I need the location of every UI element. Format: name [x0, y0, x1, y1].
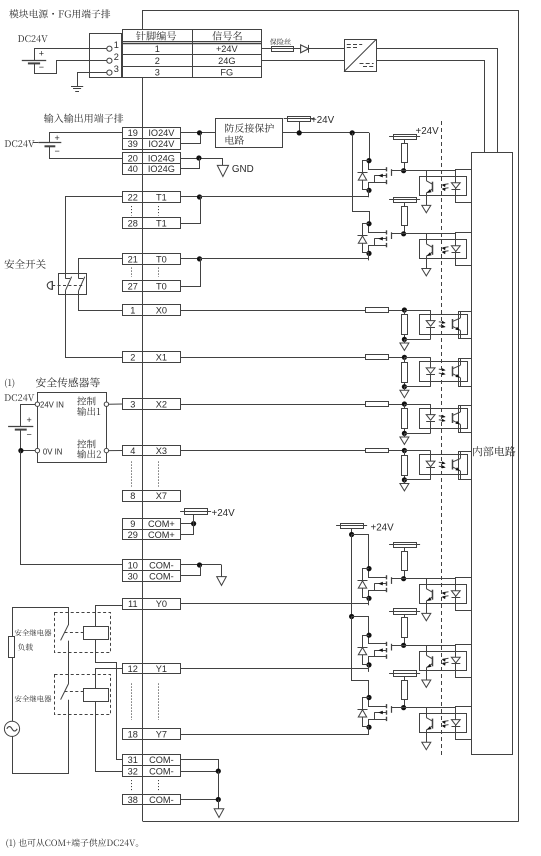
wire pin31 right to COM- bottom net — [180, 760, 218, 772]
wire resistor to gate node Y1 — [404, 637, 406, 645]
relay2 dashed box — [55, 675, 111, 715]
drain node Y7 — [366, 695, 371, 700]
wire gate node to optocoupler T1 — [404, 170, 456, 172]
terminal block pins 22 — [123, 192, 181, 203]
common triangle under X1 — [400, 387, 409, 398]
node B X1 — [402, 384, 407, 389]
optocoupler PCT1 LED — [451, 171, 460, 203]
common triangle under PCT1 — [422, 205, 431, 212]
svg-text:GND: GND — [232, 164, 254, 175]
optocoupler PCX3 box — [420, 455, 468, 475]
node A X1 — [402, 355, 407, 360]
body diode T1 — [358, 173, 368, 181]
svg-text:COM-: COM- — [149, 767, 174, 777]
wire T0 line to MOSFET source — [200, 258, 370, 260]
wire pin22 T1 to switch contact A — [66, 197, 123, 279]
terminal block pins 10/30 — [123, 560, 181, 582]
rail vertical to Y1 node — [351, 535, 353, 617]
optocoupler PCY1 light arrows — [442, 658, 449, 665]
wire resistor to gate node Y0 — [404, 571, 406, 579]
junction node COM- — [197, 562, 202, 567]
module left border line / pin-box divider net — [142, 10, 144, 821]
resistor RT1 gate pullup — [402, 144, 408, 163]
resistor RinX1 — [366, 355, 389, 360]
input cell X3 wire from pin — [180, 450, 366, 452]
svg-text:IO24G: IO24G — [148, 164, 175, 174]
optocoupler PCY1 phototransistor — [426, 645, 432, 680]
pin table header — [122, 30, 261, 78]
svg-text:COM+: COM+ — [148, 519, 175, 529]
bottom note — [6, 839, 138, 848]
svg-text:2: 2 — [114, 52, 119, 62]
wire T1 line to MOSFET source — [200, 196, 370, 198]
svg-text:−: − — [39, 62, 44, 72]
source node T1 — [366, 188, 371, 193]
junction node T0 — [197, 256, 202, 261]
wire pin40 up to IO24G node — [180, 158, 199, 169]
wire resistor to node A X1 — [389, 357, 405, 359]
optocoupler PCY7 output sub-box — [456, 707, 472, 740]
resistor RbX2 bias — [402, 404, 408, 433]
svg-text:3: 3 — [114, 64, 119, 74]
fuse F1 with label — [270, 38, 294, 51]
svg-text:27: 27 — [128, 282, 138, 292]
svg-text:0V IN: 0V IN — [43, 448, 63, 457]
body diode Y0 — [358, 581, 368, 589]
wire contact A to pin 2 X1 — [66, 291, 123, 358]
common triangle under PCY1 — [422, 680, 431, 687]
wire resistor to gate node Y7 — [404, 699, 406, 707]
wire pin19 to junction — [180, 132, 215, 134]
ellipsis between pins 32-38 — [131, 780, 133, 792]
optocoupler PCX3 light arrows — [439, 461, 446, 468]
svg-text:1: 1 — [155, 44, 160, 54]
optocoupler PCT0 phototransistor — [426, 234, 432, 269]
rail vertical to T0 — [353, 133, 370, 224]
wire pin21 T0 to switch contact B — [79, 259, 123, 279]
wire gate node to optocoupler T0 — [404, 233, 456, 235]
bottom COM- common triangle — [214, 800, 224, 818]
optocoupler PCY0 light arrows — [442, 592, 449, 599]
svg-text:11: 11 — [128, 599, 138, 609]
load resistor RL — [9, 637, 15, 658]
svg-text:COM-: COM- — [149, 560, 174, 570]
wire resistor to gate node T0 — [404, 226, 406, 234]
node A X3 — [402, 448, 407, 453]
svg-text:2: 2 — [130, 353, 135, 363]
drain node Y1 — [366, 633, 371, 638]
title label module-power/FG terminal block — [9, 9, 110, 18]
terminal block pins 9/29 — [123, 519, 181, 540]
wire rail to T cells — [352, 132, 369, 134]
resistor RinX2 — [366, 402, 389, 407]
optocoupler PCY7 LED — [451, 708, 460, 740]
wire resistor to node A X2 — [389, 404, 405, 406]
body diode Y1 — [358, 648, 368, 655]
resistor RbX1 bias — [402, 357, 408, 386]
wire DC/DC lower output to internal circuit — [376, 61, 484, 153]
svg-text:COM+: COM+ — [148, 530, 175, 540]
gate node Y7 — [401, 705, 406, 710]
junction node T1 — [197, 194, 202, 199]
output cell Y1: +24V fuse tap — [389, 609, 420, 618]
svg-text:31: 31 — [128, 755, 138, 765]
terminal block pins 11 — [123, 599, 181, 610]
pin table row 1 +24V — [155, 44, 239, 54]
body diode Y7 — [358, 710, 368, 718]
wire contact B to pin 1 X0 — [79, 291, 123, 311]
optocoupler PCY0 output sub-box — [456, 578, 472, 611]
svg-text:9: 9 — [130, 519, 135, 529]
resistor RbX0 bias — [402, 310, 408, 339]
title label I/O terminal block — [44, 114, 123, 123]
MOSFET QT0 — [369, 224, 404, 254]
wire B2- to pin 20 — [50, 146, 123, 158]
terminal block pins 8 — [123, 491, 181, 502]
relay1 dashed box — [55, 613, 111, 653]
svg-text:30: 30 — [128, 571, 138, 581]
fuse tap FP2 +24V COM+ — [180, 508, 235, 523]
wire +24V row to fuse — [262, 48, 272, 50]
ellipsis between pins 4-8 — [131, 462, 133, 487]
svg-text:+: + — [39, 49, 44, 59]
terminal block pins 27 — [123, 281, 181, 292]
wire Y7 line to MOSFET source — [180, 734, 369, 736]
svg-text:20: 20 — [128, 153, 138, 163]
svg-text:38: 38 — [128, 795, 138, 805]
optocoupler PCX0 phototransistor — [453, 311, 461, 339]
wire Y0 line to MOSFET source — [180, 603, 369, 605]
svg-text:FG: FG — [220, 67, 233, 77]
wire 0V node down to COM- pin 10 — [21, 451, 123, 565]
wire sensor output2 to pin 4 X3 — [109, 450, 123, 452]
svg-text:21: 21 — [128, 254, 138, 264]
label safety sensor — [36, 377, 100, 387]
node B X0 — [402, 337, 407, 342]
resistor RT0 gate pullup — [402, 207, 408, 226]
svg-text:29: 29 — [128, 530, 138, 540]
output cell Y7: +24V fuse tap — [389, 671, 420, 681]
optocoupler PCX3 input sub-box — [459, 452, 472, 480]
optocoupler PCX0 LED loop — [404, 310, 435, 340]
source node Y7 — [366, 725, 371, 730]
optocoupler PCY7 phototransistor — [426, 708, 432, 743]
drain node T0 — [366, 221, 371, 226]
reverse-connection protection circuit box — [216, 119, 283, 148]
pin table row 2 24G — [155, 56, 236, 66]
module outer border — [143, 10, 519, 822]
svg-text:+: + — [27, 415, 32, 425]
optocoupler PCX2 box — [420, 409, 468, 429]
svg-text:18: 18 — [128, 729, 138, 739]
optocoupler PCX2 input sub-box — [459, 406, 472, 433]
wire terminal 3 to earth ground — [78, 73, 107, 87]
resistor RY1 gate pullup — [402, 618, 408, 638]
optocoupler PCT1 output sub-box — [456, 170, 472, 203]
wire pin27 up to T0 node — [180, 259, 200, 287]
wire B1- to terminal 2 — [35, 61, 107, 74]
AC source G1 — [4, 721, 19, 736]
svg-text:24G: 24G — [218, 56, 235, 66]
junction node rail at fuse — [297, 130, 302, 135]
COM- common triangle — [217, 565, 227, 585]
svg-text:8: 8 — [130, 491, 135, 501]
wire B2+ to pin 19 — [50, 133, 123, 144]
terminal block pins 20/40 — [123, 153, 181, 175]
body diode Y0 loop — [363, 569, 370, 598]
GND arrow symbol — [217, 158, 253, 177]
wire pin21 right to T0 node — [180, 258, 199, 260]
svg-text:X1: X1 — [156, 353, 167, 363]
svg-text:24V IN: 24V IN — [40, 400, 64, 409]
svg-text:3: 3 — [155, 67, 160, 77]
resistor RinX0 — [366, 308, 389, 313]
optocoupler PCY1 box — [420, 652, 467, 671]
wire gate node to optocoupler Y0 — [404, 578, 456, 580]
switch contact A — [65, 277, 71, 291]
common triangle under PCY0 — [422, 613, 431, 620]
svg-text:COM-: COM- — [149, 795, 174, 805]
wire relay1 coil return to pin31 — [96, 640, 123, 760]
wire pin22 right to T1 node — [180, 196, 199, 198]
gate node T1 — [401, 168, 406, 173]
node A X2 — [402, 401, 407, 406]
svg-text:Y1: Y1 — [156, 664, 167, 674]
wire pin28 up to T1 node — [180, 197, 200, 224]
relay1 contact — [61, 624, 69, 683]
sensor box — [38, 393, 107, 463]
svg-text:+24V: +24V — [371, 523, 395, 534]
body diode T1 loop — [363, 161, 370, 190]
optocoupler PCY1 output sub-box — [456, 645, 472, 678]
mechanical link dashed — [52, 285, 82, 287]
optocoupler PCY7 box — [420, 714, 467, 733]
terminal block pins 3 — [123, 399, 181, 410]
svg-text:Y0: Y0 — [156, 599, 167, 609]
svg-text:12: 12 — [128, 664, 138, 674]
wire rail elbow down to T1 drain — [369, 133, 371, 161]
junction node COM+ — [191, 521, 196, 526]
power terminal strip with circles 1-3 — [90, 34, 122, 78]
optocoupler PCX1 phototransistor — [453, 359, 461, 387]
optocoupler PCT1 light arrows — [442, 184, 449, 191]
ellipsis between pins 21-27 — [131, 268, 133, 278]
optocoupler PCX0 box — [420, 315, 468, 335]
source node Y0 — [366, 596, 371, 601]
wire down to 38 node — [218, 771, 220, 799]
wire sensor output1 to pin 3 X2 — [109, 403, 123, 405]
sensor terminal 0V IN — [35, 448, 62, 457]
svg-text:4: 4 — [130, 446, 135, 456]
relay1 coil — [84, 627, 109, 640]
wire pin38 right — [180, 799, 218, 801]
optocoupler PCY0 LED — [451, 579, 460, 611]
wire rail elbow to Y1 drain — [352, 617, 369, 636]
terminal block pins 31/32 — [123, 755, 181, 777]
body diode Y1 loop — [363, 636, 370, 665]
optocoupler PCX2 LED loop — [404, 404, 435, 434]
relay2 contact — [61, 684, 69, 700]
terminal block pins 18 — [123, 729, 181, 740]
wire gate node to optocoupler Y1 — [404, 645, 456, 647]
wire B3- to 0V IN — [21, 430, 36, 451]
junction rail split Y0 — [349, 532, 354, 537]
svg-text:39: 39 — [128, 139, 138, 149]
wire gate node to optocoupler Y7 — [404, 707, 456, 709]
pin table row 3 FG — [155, 67, 233, 77]
terminal block pins 38 — [123, 795, 181, 805]
wire fuse to diode D1 — [294, 48, 301, 50]
wire pin20 to GND branch — [180, 158, 223, 160]
wire B3+ to 24V IN — [21, 405, 36, 427]
junction node COM- 38 — [216, 797, 221, 802]
svg-text:+24V: +24V — [416, 126, 440, 137]
svg-text:3: 3 — [130, 399, 135, 409]
wire relay2 coil return to pin32 — [96, 701, 123, 771]
safety switch S1 box — [59, 274, 87, 295]
sensor output 1 label — [77, 397, 108, 416]
drain node T1 — [366, 158, 371, 163]
isolation dashed line — [441, 121, 443, 756]
diode D1 — [301, 45, 309, 53]
svg-text:+24V: +24V — [212, 508, 236, 519]
optocoupler PCX3 LED loop — [404, 451, 435, 480]
DC/DC converter U1 — [344, 39, 377, 71]
optocoupler PCT1 phototransistor — [426, 171, 432, 206]
junction node IO24V — [197, 130, 202, 135]
switch actuator cam — [47, 281, 52, 289]
label load — [18, 643, 33, 650]
svg-text:X7: X7 — [156, 491, 167, 501]
body diode T0 — [358, 236, 368, 244]
junction rail split T — [350, 130, 355, 135]
terminal block pins 1 — [123, 305, 181, 316]
source node Y1 — [366, 662, 371, 667]
label safety switch — [5, 259, 46, 269]
optocoupler PCY0 phototransistor — [426, 579, 432, 614]
svg-text:1: 1 — [114, 40, 119, 50]
battery B2 DC24V field supply — [5, 133, 62, 156]
optocoupler PCY7 light arrows — [442, 721, 449, 728]
output cell T1: +24V fuse tap — [389, 135, 420, 144]
svg-text:T0: T0 — [156, 282, 167, 292]
optocoupler PCX0 light arrows — [439, 321, 446, 328]
body diode Y7 loop — [363, 698, 370, 727]
resistor RbX3 bias — [402, 451, 408, 480]
wire pin30 up to COM- node — [180, 565, 200, 576]
common triangle under PCY7 — [422, 742, 431, 749]
wire pin9 to COM+ node — [180, 523, 193, 525]
wire DC/DC upper output to internal circuit — [376, 49, 497, 153]
optocoupler PCT0 box — [420, 240, 467, 259]
common triangle under X0 — [400, 339, 409, 350]
node A X0 — [402, 307, 407, 312]
relay1 mech link dashed — [65, 632, 84, 634]
svg-text:1: 1 — [130, 305, 135, 315]
wire pin11 Y0 to relay1 coil — [96, 606, 123, 627]
optocoupler PCX3 phototransistor — [453, 452, 461, 480]
svg-text:X2: X2 — [156, 399, 167, 409]
optocoupler PCT1 box — [420, 177, 467, 196]
junction node COM- 32 — [216, 769, 221, 774]
optocoupler PCY0 box — [420, 585, 467, 604]
wire 24G row to DC/DC converter — [262, 60, 345, 62]
junction node 0V — [18, 448, 23, 453]
earth ground symbol FG — [71, 87, 83, 92]
resistor RinX3 — [366, 449, 389, 453]
svg-text:40: 40 — [128, 164, 138, 174]
output cell T0: +24V fuse tap — [389, 198, 420, 207]
junction rail split Y1 — [349, 614, 354, 619]
label safety relay 2 — [15, 695, 51, 702]
svg-text:+: + — [55, 133, 60, 143]
common triangle under PCT0 — [422, 269, 431, 276]
input cell X0 wire from pin — [180, 310, 366, 312]
svg-text:Y7: Y7 — [156, 729, 167, 739]
wire protection box to +24V fuse tap — [282, 132, 352, 134]
label internal circuit — [473, 446, 515, 456]
svg-text:COM-: COM- — [149, 571, 174, 581]
resistor RY7 gate pullup — [402, 681, 408, 700]
svg-text:+24V: +24V — [311, 115, 335, 126]
input cell X1 wire from pin — [180, 357, 366, 359]
svg-text:X3: X3 — [156, 446, 167, 456]
terminal block pins 4 — [123, 446, 181, 456]
fuse tap FP3 +24V output rail — [336, 523, 394, 535]
body diode T0 loop — [363, 224, 370, 253]
optocoupler PCT0 LED — [451, 234, 460, 266]
gate node T0 — [401, 231, 406, 236]
terminal block pins 19/39 — [123, 128, 181, 150]
terminal block pins 2 — [123, 352, 181, 363]
output cell Y0: +24V fuse tap — [389, 543, 420, 552]
svg-text:X0: X0 — [156, 305, 167, 315]
wire source to line Y7 — [368, 727, 370, 734]
svg-text:+24V: +24V — [216, 44, 239, 54]
optocoupler PCT0 light arrows — [442, 247, 449, 254]
rail vertical to Y7 elbow — [352, 617, 369, 698]
optocoupler PCX1 light arrows — [439, 368, 446, 375]
terminal block pins 28 — [123, 218, 181, 229]
relay2 mech link dashed — [65, 691, 84, 693]
label safety relay 1 — [15, 629, 51, 636]
svg-text:19: 19 — [128, 128, 138, 138]
wire resistor to node A X3 — [389, 450, 405, 452]
input cell X2 wire from pin — [180, 404, 366, 406]
node B X3 — [402, 477, 407, 482]
gate node Y1 — [401, 643, 406, 648]
switch contact B — [79, 277, 85, 291]
MOSFET QY1 — [369, 635, 404, 665]
svg-text:28: 28 — [128, 219, 138, 229]
source node T0 — [366, 251, 371, 256]
resistor RY0 gate pullup — [402, 552, 408, 571]
fuse tap FP1 +24V rail — [284, 115, 335, 133]
MOSFET QY7 — [369, 698, 404, 728]
battery B3 DC24V sensor supply — [5, 394, 35, 439]
terminal block pins 21 — [123, 254, 181, 265]
wire pin39 up to IO24V node — [180, 133, 200, 144]
svg-text:T1: T1 — [156, 192, 167, 202]
junction node IO24G — [196, 155, 201, 160]
note mark (1) — [5, 378, 14, 388]
wire rail elbow to Y0 drain — [352, 535, 369, 569]
load loop top wire to contact1 — [12, 608, 69, 625]
terminal block pins 12 — [123, 664, 181, 674]
optocoupler PCX0 input sub-box — [459, 312, 472, 339]
wire Y1 line to MOSFET source — [180, 668, 369, 670]
battery B1 DC24V module power — [18, 35, 48, 72]
